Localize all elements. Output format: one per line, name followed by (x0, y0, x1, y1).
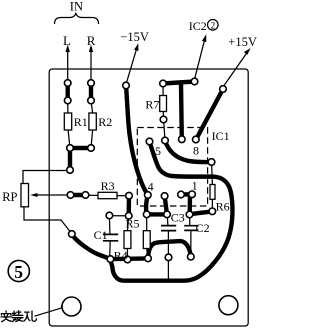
svg-text:C2: C2 (196, 221, 210, 235)
wire: T vertical to pin7 (179, 84, 184, 139)
wire: ground ring trace from pin5 (110, 142, 232, 281)
pad: R input (88, 80, 95, 87)
label mounting hole (Chinese: an zhuang kong) (1, 311, 37, 322)
wire: junction to RP top (23, 171, 70, 184)
wire: C2 leads (190, 215, 191, 257)
resistor R5 (143, 231, 150, 249)
svg-text:R1: R1 (74, 115, 88, 129)
svg-text:R3: R3 (101, 179, 115, 193)
wire: mounting-hole pointer (35, 306, 63, 317)
wire: pin4 stub down (146, 196, 148, 215)
wire: IC2 arrow (195, 34, 207, 78)
svg-text:8: 8 (193, 144, 199, 158)
wire: R1/R2 bottom bar (70, 146, 91, 150)
wire: R3 right pad down to R4 top (126, 196, 131, 216)
pad: +15V (220, 86, 227, 93)
wire: R4 leads (127, 216, 128, 260)
wire: C1 bottom lead (109, 241, 112, 259)
pad: C2 top node (186, 211, 193, 218)
wire: +15V trace to pin8 (196, 89, 223, 140)
pad: IC1 pin6 (162, 137, 169, 144)
pad: R2 bottom (88, 145, 95, 152)
svg-text:5: 5 (155, 144, 161, 158)
resistor R6 (210, 185, 215, 200)
pad: R5 top / pin4 node (143, 211, 150, 218)
svg-text:R4: R4 (114, 249, 128, 263)
wire: bar to junction (68, 148, 72, 170)
svg-text:4: 4 (148, 180, 154, 194)
wire: R arrow (89, 45, 93, 81)
pad: IC1 pin3 (161, 193, 168, 200)
svg-text:C1: C1 (94, 228, 108, 242)
pad: R1 bottom (67, 145, 74, 152)
svg-text:IC1: IC1 (212, 129, 230, 143)
resistor R2 (89, 113, 96, 130)
svg-text:R: R (87, 33, 96, 48)
svg-text:R6: R6 (216, 200, 230, 214)
pad: L input (64, 80, 71, 87)
wire: L input stub (65, 83, 69, 101)
resistor R1 (64, 113, 71, 130)
pad: R5 bottom (145, 255, 152, 262)
wire: C2 node to R6 bottom (190, 211, 213, 214)
pad: IC1 pin5 (146, 138, 153, 145)
capacitor C2 (184, 226, 198, 231)
wire: R5 leads (147, 215, 148, 259)
pad: C3 bottom (165, 254, 172, 261)
pad: IC1 pin4 (145, 192, 152, 199)
label IN with brace (55, 0, 99, 24)
svg-text:R5: R5 (126, 217, 140, 231)
wire: R7 leads (163, 84, 165, 141)
pad: junction node (67, 167, 74, 174)
wire: RP bottom to C1 pad (24, 207, 72, 234)
pad: R4 bottom (124, 256, 131, 263)
pad: C1 bottom (107, 256, 114, 263)
wire: bottom bar C1-R4-R5 (110, 256, 148, 261)
svg-text:IN: IN (70, 0, 83, 14)
wire: pin4-node bar to C3 node (147, 212, 167, 216)
pad: C3 top node (164, 211, 171, 218)
pad: RP lower wire node (69, 231, 76, 238)
pad: IC1 pin8 (193, 136, 200, 143)
capacitor C3 (161, 226, 176, 231)
pad: -15V (123, 82, 130, 89)
pad: wiper mid (82, 192, 89, 199)
pad: IC1 pin1 (189, 191, 196, 198)
IC1 dashed outline U1 (137, 128, 207, 207)
svg-text:R2: R2 (98, 115, 112, 129)
svg-text:C3: C3 (171, 210, 185, 224)
svg-text:L: L (63, 33, 71, 48)
pad: T-bar right / IC2 out (191, 78, 198, 85)
wire: L arrow (66, 45, 70, 81)
resistor R7 (160, 96, 167, 112)
wire: R input stub (89, 83, 93, 101)
wire: R2 leads (91, 101, 93, 149)
svg-text:IC2: IC2 (189, 19, 207, 33)
label IC2 with circled 2 (189, 19, 218, 33)
pad: R4 top (125, 213, 132, 220)
resistor R4 (124, 231, 131, 249)
wire: pin1 bar down to C2 node (187, 195, 192, 214)
wire: wiper thick segment (71, 193, 86, 197)
svg-text:−15V: −15V (120, 30, 149, 44)
resistor R3 (98, 192, 117, 198)
pad: R7 bottom (160, 116, 167, 123)
pad: IC1 pin7 (179, 136, 186, 143)
pad: IC1 pin2 (178, 191, 185, 198)
wire: C3 leads (167, 215, 168, 281)
potentiometer RP (21, 184, 29, 207)
wire: pin1-pin2 bar (181, 192, 192, 197)
svg-text:5: 5 (14, 262, 23, 282)
pad: wiper left (67, 192, 74, 199)
board outline (49, 69, 248, 326)
wire: C1 top lead and link to R4 (109, 216, 128, 235)
pad: C1 top (106, 212, 113, 219)
wire: +15V arrow (224, 48, 251, 86)
pad: R lower (88, 97, 95, 104)
wire: R3 leads (86, 194, 130, 196)
mounting hole left (62, 297, 81, 316)
pad: R3 right (126, 192, 133, 199)
pad: C2 bottom (188, 253, 195, 260)
svg-text:1: 1 (192, 179, 198, 193)
wire: R6 leads (211, 162, 214, 211)
wire: top T-bar (163, 82, 195, 84)
figure number circled 5 (8, 260, 29, 281)
capacitor C1 (103, 234, 118, 240)
wire: pin6 to right-edge pad (165, 141, 212, 163)
wire: -15V arrow (127, 43, 139, 82)
svg-text:2: 2 (211, 21, 216, 31)
pad: L lower (64, 97, 71, 104)
wire: -15V trace to pin4 (126, 86, 147, 195)
wire: RP wiper line with arrow (30, 193, 70, 197)
wire: R1 leads (68, 101, 70, 149)
pad: right edge node (208, 159, 215, 166)
mounting hole right (219, 296, 238, 315)
svg-text:+15V: +15V (228, 35, 257, 49)
svg-text:RP: RP (2, 190, 17, 204)
wire: RP lower pad curve to C1 bottom (72, 235, 110, 260)
pad: T-bar left / R7 top (160, 80, 167, 87)
wire: bridge arc R5 bottom to C2 bottom (148, 241, 191, 258)
svg-text:R7: R7 (145, 98, 159, 112)
pad: R6 bottom (209, 208, 216, 215)
wire: pin3 down to C3 node (165, 196, 167, 214)
